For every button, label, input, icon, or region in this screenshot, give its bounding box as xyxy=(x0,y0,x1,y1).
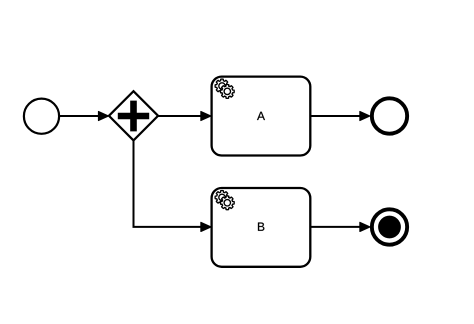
terminate end event filled inner circle xyxy=(378,216,401,239)
arrowhead into task A xyxy=(201,112,211,121)
wire task B to terminate end event xyxy=(310,226,361,228)
task B rounded box xyxy=(212,188,311,267)
task A label "A" xyxy=(257,112,265,120)
arrowhead into terminate end event xyxy=(360,222,370,231)
wire gateway down and right to task B xyxy=(134,140,204,227)
start event circle xyxy=(24,99,59,134)
task A service gears icon xyxy=(215,79,229,93)
arrowhead into task B xyxy=(201,222,211,231)
wire start to gateway xyxy=(60,115,100,117)
wire gateway to task A xyxy=(158,115,203,117)
terminate end event outer circle (bottom) xyxy=(372,209,407,244)
task B label "B" xyxy=(258,223,264,231)
gateway plus marker xyxy=(118,101,149,132)
task B service gears icon xyxy=(215,191,229,205)
arrowhead into gateway xyxy=(99,112,109,121)
parallel gateway diamond xyxy=(109,91,158,140)
wire task A to end event xyxy=(310,115,361,117)
arrowhead into end event xyxy=(360,112,370,121)
end event circle (top) xyxy=(372,98,407,133)
task A rounded box xyxy=(212,77,311,156)
